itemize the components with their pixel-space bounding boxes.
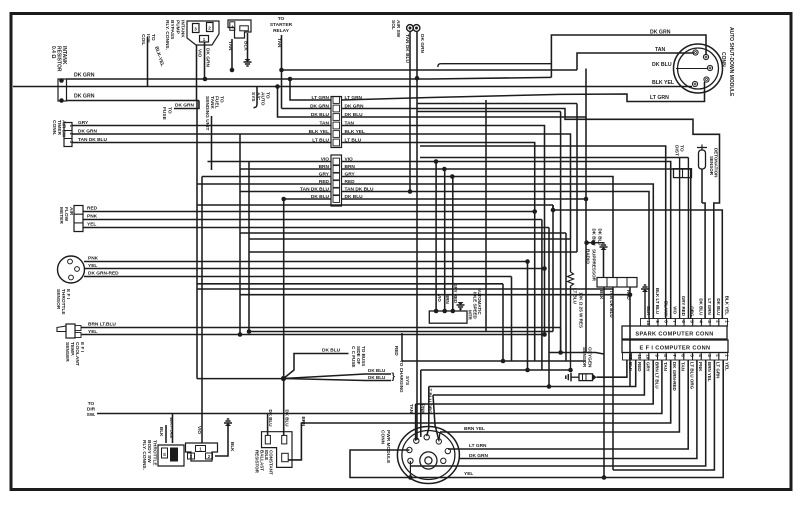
junction x527 row261 [525,259,530,264]
svg-text:10K Ω 25 W RES: 10K Ω 25 W RES [579,292,584,328]
svg-text:SOL: SOL [390,20,396,30]
svg-text:TO: TO [218,96,224,103]
svg-text:1: 1 [725,354,730,357]
junction GRY RED AIS tap [450,174,455,179]
svg-text:9: 9 [655,354,660,357]
svg-text:LT BLU ORG: LT BLU ORG [428,386,433,414]
wire YEL afm row [83,227,549,229]
wire C2 TAN DK BLU left [240,191,331,193]
svg-text:3: 3 [707,320,712,323]
wire efi pin9 row404 [416,360,654,404]
wire fuel tank sending [211,116,213,170]
wire DK BLU to charging 2 [284,379,392,381]
wire DK BLU to ballast pin1 [267,414,269,436]
wire GRY RED to AIS [452,177,454,312]
wire C1 DK GRN to spark pin 2 [342,109,720,320]
wire cell4 drop to row386 [629,287,631,387]
pwr module center ring [420,452,437,469]
svg-text:3: 3 [194,27,197,32]
wire row289 [197,288,613,290]
radio suppressor tap wire [586,242,604,244]
svg-text:IDLE: IDLE [264,450,269,460]
junction DK BLU bus [584,197,589,202]
svg-text:BLK: BLK [646,306,651,316]
wire GRY air timer [72,125,331,127]
svg-text:BRN LT.BLU: BRN LT.BLU [88,322,116,328]
svg-text:YEL: YEL [724,362,729,371]
wire DK GRN riser to module pin [551,35,706,77]
wire drop x527 [527,262,529,371]
svg-text:TO: TO [167,107,173,114]
wire x283 vertical [283,199,285,379]
svg-text:TAN DK BLU: TAN DK BLU [404,34,410,63]
svg-text:E F I COMPUTER CONN: E F I COMPUTER CONN [640,346,711,352]
svg-text:TO BUSS: TO BUSS [361,346,366,366]
wire DK BLU through module to pin S [676,68,708,70]
wire C2 BRN left [240,168,331,170]
wire to auto a/c sys [254,87,258,108]
wire x283 to ballast cell2 [283,379,285,436]
svg-text:RESISTOR: RESISTOR [255,450,260,474]
wire drop x553 [552,205,554,332]
wire drop x541 [541,220,543,371]
svg-text:RED: RED [394,346,399,356]
wire DK BLU to charging 1 [284,374,392,379]
wire DK GRN air timer [72,133,331,135]
svg-text:ORG: ORG [690,306,695,317]
wire BRN LT BLU coolant row [81,327,561,329]
svg-text:RLY. CONNS.: RLY. CONNS. [164,20,170,50]
svg-text:SIDE OF: SIDE OF [356,346,361,365]
wire to fuse [174,101,199,109]
svg-text:LT GRN: LT GRN [716,362,721,378]
connector C2 strip [331,155,342,206]
svg-text:PNK: PNK [88,256,99,262]
svg-text:STARTER: STARTER [270,22,293,28]
wire C1 LT GRN left riser [290,79,331,100]
detonation sensor [699,150,706,169]
wire TAN into pwr module [415,404,417,441]
svg-text:CONN: CONN [380,430,386,445]
air sw sol terminal 2 [413,25,420,32]
wire LT BLU ORG into pwr module [427,387,429,437]
wire long vertical x197 [196,101,198,379]
junction row210 [551,208,556,213]
junction BRN AIS tap [442,167,447,172]
svg-text:7: 7 [672,320,677,323]
svg-text:BYPASS: BYPASS [169,20,175,40]
connector constant ballast resistor [262,432,293,468]
ground oxygen sensor [566,373,571,382]
svg-text:RED: RED [637,362,642,372]
svg-text:6: 6 [681,354,686,357]
wire BLK drop throttle body [165,425,167,443]
junction pump-bypass DK GRN [203,77,208,82]
svg-text:SYS: SYS [405,376,410,385]
junction suppressor tap 1 [584,240,589,245]
wire VIO pump bypass [196,45,198,101]
wire to dir sw [97,413,268,415]
svg-text:FUSE: FUSE [161,107,167,121]
svg-text:7: 7 [672,354,677,357]
svg-text:DK GRN-RED: DK GRN-RED [672,362,677,391]
svg-text:DK GRN: DK GRN [469,453,488,459]
svg-text:SW.: SW. [87,412,96,418]
svg-text:TO: TO [150,34,156,41]
svg-text:IDLE SPEED: IDLE SPEED [473,292,478,320]
svg-text:BRN: BRN [301,417,306,427]
svg-text:DK GRN: DK GRN [419,34,425,53]
wire stub y63 to riser [438,64,551,67]
wire efi pin7 to ballast BRN [288,360,671,460]
wire YEL throttle row [84,268,545,270]
wire RED afm row [83,211,535,213]
wire row239 [249,238,571,240]
wire drop x566 [565,233,567,361]
svg-text:DK BLU: DK BLU [716,298,721,315]
wire efi pin10 row395 [433,360,644,395]
pwr module conn circle U-PWR [397,427,459,484]
wire drop x560 [560,112,562,353]
ground spark pin 10 [644,292,646,319]
svg-text:BLK YEL: BLK YEL [652,80,675,86]
svg-text:CONN: CONN [720,52,726,67]
svg-text:TAN: TAN [319,121,329,127]
svg-text:THROTTLE: THROTTLE [151,440,157,466]
wire efi pin2 row470 [613,360,714,470]
wire efi pin12 to oxygen sensor [597,360,627,377]
wire efi pin3 row466 [410,360,705,466]
wire efi pin11 row386 [429,360,636,387]
wire drop x549 [548,228,550,387]
efi coolant temp sensor [57,326,66,332]
wire DK GRN pump bypass [204,42,206,79]
wire C2 DK BLU left [284,198,331,200]
wire C1 LT GRN to module pin [342,82,705,102]
svg-text:S: S [163,452,166,457]
spark computer conn box [622,326,727,339]
efi throttle sensor circle [58,256,85,283]
svg-text:PNK: PNK [421,404,426,414]
wire drop x503 [502,284,504,361]
svg-text:5: 5 [690,354,695,357]
svg-text:1: 1 [724,320,729,323]
svg-text:WHT-TAN: WHT-TAN [169,417,174,439]
svg-text:LT GRN: LT GRN [707,298,712,314]
svg-text:8: 8 [664,320,669,323]
svg-text:0.4 Ω: 0.4 Ω [50,46,56,58]
svg-text:4: 4 [698,354,703,357]
svg-text:SENSOR: SENSOR [581,347,587,368]
junction BLK YEL riser [275,84,280,89]
junction C2 DK BLU [281,197,286,202]
svg-text:TO: TO [264,92,270,99]
junction TAN starter relay [279,68,284,73]
svg-text:RADIO: RADIO [586,249,591,264]
wire drop x534 lower [534,212,536,362]
connector throttle body A [158,445,184,466]
wire BRN YEL from pin [439,432,440,441]
wire BLK-YEL ign coil drop [147,37,149,87]
wire TAN rly conn [231,39,233,70]
svg-text:DIR: DIR [87,407,96,413]
svg-text:9: 9 [655,320,660,323]
wire C2 DK BLU to DK BLU bus [342,198,587,200]
svg-text:MTR: MTR [468,310,473,320]
wire row157 to dist bracket [420,157,688,159]
svg-text:AUTO SHUT-DOWN MODULE: AUTO SHUT-DOWN MODULE [728,27,734,97]
wire long vertical x202 (VIO throttle body) [201,177,203,444]
svg-text:2: 2 [716,354,721,357]
wire C2 RED to spark pin 9 [342,184,654,319]
wire TAN starter relay drop [281,35,283,109]
svg-text:10: 10 [646,354,651,360]
wire C2 VIO to spark pin 7 [342,162,671,320]
svg-text:SUPPRESSOR: SUPPRESSOR [591,249,596,282]
junction sol DK GRN on bus [415,76,420,81]
wire long vertical x249 [248,162,250,332]
wire DK GRN resistor bottom [67,100,200,102]
wire row294 [240,294,630,296]
svg-text:AIR: AIR [68,207,74,216]
wire detonation to spark pin 3 [702,203,705,319]
resistor 10K 25W R-10k [570,239,572,272]
wire BLK YEL bus [13,86,692,88]
wire C1 DK GRN left [282,108,332,110]
svg-text:BRN YEL: BRN YEL [707,362,712,382]
wire C2 VIO left [208,161,332,163]
wire riser row395 to pin V [433,395,439,440]
wire C1 DK BLU to module [342,69,587,118]
svg-text:YEL: YEL [464,471,473,477]
wire to-dist left through to spark pin 6 [679,158,681,320]
wire DK BLU long drop x586 [585,117,587,353]
svg-text:GRY RED: GRY RED [453,283,458,304]
svg-text:DK GRN: DK GRN [74,73,95,79]
junction x544 row268 [542,266,547,271]
auto shut-down module conn U-ASD [674,44,723,93]
connector 4-cell strip [597,278,637,288]
svg-text:PWR MODULE: PWR MODULE [385,430,391,464]
svg-text:E F I: E F I [65,289,71,300]
svg-text:AIR SW: AIR SW [395,20,401,38]
wire row331 [249,331,553,333]
svg-text:TAN: TAN [655,47,666,53]
wire to buss side of cc fuse [284,354,349,379]
svg-text:RLY. CONNS.: RLY. CONNS. [141,440,147,470]
svg-text:BALLAST: BALLAST [259,450,264,471]
wire drop x560 lower [560,328,562,353]
svg-text:RELAY: RELAY [273,28,290,34]
ground throttle body [224,419,232,423]
svg-text:TAN: TAN [681,362,686,371]
wire PNK afm row [83,219,542,221]
wire C1 LT BLU right to drop x534 [342,143,535,212]
svg-text:12: 12 [628,354,633,360]
junction x560 y352 [558,350,563,355]
wire TAN riser to module pin [577,53,694,70]
svg-text:LT BLU ORG: LT BLU ORG [689,362,694,390]
efi computer pin row [623,353,632,361]
wire row233 [240,232,566,234]
svg-text:OXYGEN: OXYGEN [586,347,592,368]
wire efi pin4 DK GRN row [459,360,697,459]
wire C2 GRY to 4-cell conn [342,177,614,278]
oxygen sensor component [579,374,593,381]
svg-text:5: 5 [690,320,695,323]
pwr module pins [414,438,419,443]
wire DK GRN bus (resistor to shutdown module) [67,77,552,79]
wire long vertical x240 [239,134,241,335]
junction conn C1 LT GRN riser [288,77,293,82]
wire row352 jog to x604 [549,353,604,355]
ground AIS [457,305,465,309]
svg-text:BLANK: BLANK [664,301,669,317]
wire C2 GRY left [202,176,331,178]
svg-text:2: 2 [208,26,211,31]
connector air sw timer [64,123,72,147]
svg-text:DK BLU: DK BLU [368,368,386,373]
svg-text:VIO: VIO [672,306,677,314]
wire DK GRN sol long drop [416,32,418,441]
wire BRN to AIS [444,169,446,311]
wire drop x577 [576,104,578,253]
wire drop x511 [511,277,513,362]
wire row111.5 [417,111,561,113]
wire efi pin8 row413 [268,360,662,414]
wire efi pin1 YEL row [413,360,723,478]
svg-text:BLK YEL: BLK YEL [725,296,730,315]
wire row370 [421,369,571,371]
svg-text:INTANK: INTANK [61,46,67,65]
ground rly conn BLK [244,62,252,66]
svg-text:BLK: BLK [628,362,633,372]
svg-text:CONSTANT: CONSTANT [269,450,274,475]
svg-text:DK GRN: DK GRN [650,30,671,36]
svg-text:BRN: BRN [445,294,450,304]
svg-text:11: 11 [637,354,642,359]
connector pump bypass rly [187,21,219,45]
svg-text:DETONATION: DETONATION [714,148,719,177]
svg-text:VIO: VIO [437,294,442,302]
wire row252 [249,251,577,253]
connector C1 strip [331,97,342,148]
wire BLK to ground throttle body [215,426,228,456]
wire row146 to spark pin 8 [420,146,666,319]
svg-text:4: 4 [698,320,703,323]
svg-text:AUTOMATIC: AUTOMATIC [477,288,482,315]
junction VIO AIS tap [434,159,439,164]
wire to-dist right to spark pin 5 [687,158,689,320]
svg-text:DK BLU: DK BLU [268,410,273,427]
wire WHT-TAN drop [172,414,174,444]
svg-text:PNK: PNK [698,362,703,372]
wire pin O to YEL row [409,461,411,478]
svg-text:PNK: PNK [87,214,98,220]
efi computer conn box [622,340,728,353]
svg-text:C C FUSE: C C FUSE [351,346,356,367]
svg-text:TAN: TAN [409,404,414,414]
connector throttle body B [186,443,218,461]
svg-text:TO: TO [679,145,685,152]
svg-text:TO: TO [88,401,95,407]
svg-text:LT BLU: LT BLU [312,138,329,144]
wire RED to charging sys riser [401,333,403,361]
svg-text:DK GRN-RED: DK GRN-RED [88,271,119,277]
svg-text:}: } [392,371,396,381]
wire C1 TAN right to drop x544 [342,126,545,269]
wire C2 RED left [197,183,331,185]
wire row103.5 [417,103,577,105]
svg-text:TAN: TAN [663,362,668,371]
wire DK GRN-RED throttle row [84,276,512,278]
wire TAN bus to module [282,69,578,71]
intank resistor R-intank [58,79,67,101]
wire cell1 to ground [603,249,605,278]
automatic idle speed motor box M-AIS [429,311,467,323]
capacitor to-dist [674,169,692,178]
svg-text:SENSOR: SENSOR [709,156,714,176]
wire cell2 drop to row470 [612,287,614,470]
svg-text:VIO: VIO [197,49,203,58]
air sw sol terminal 1 [407,25,414,32]
wire row378 from x197 [197,378,284,380]
svg-text:DK BLU: DK BLU [698,298,703,315]
svg-text:6: 6 [681,320,686,323]
svg-text:PUMP: PUMP [174,20,180,35]
svg-text:RED: RED [87,206,98,212]
svg-text:DK GRN: DK GRN [205,48,211,67]
spark computer pin row [641,319,650,327]
svg-text:LT GRN: LT GRN [469,443,487,449]
wire TAN DK BLU air timer [72,142,331,144]
svg-text:DK BLU: DK BLU [368,375,386,380]
svg-text:1: 1 [203,37,206,42]
svg-text:BRN LT BLU: BRN LT BLU [654,362,659,389]
wire efi pin5 LT GRN row [448,360,688,449]
wire YEL coolant row [81,334,545,336]
svg-text:LT GRN: LT GRN [650,95,669,101]
svg-text:DK BLU: DK BLU [652,62,672,68]
wire long vertical x486 [485,100,487,332]
svg-text:YEL: YEL [87,222,96,228]
svg-text:E F I: E F I [79,342,85,353]
svg-text:DK GRN: DK GRN [74,94,95,100]
wire row361 [402,360,586,362]
svg-text:RESISTOR: RESISTOR [56,46,62,72]
svg-text:DK BLU: DK BLU [284,410,289,427]
wire row210 to spark pin 1 [553,210,722,319]
svg-text:TO CHARGING: TO CHARGING [399,360,404,393]
wire C1 DK BLU left riser [278,87,332,118]
wire pin2 loop [350,450,413,478]
svg-text:BRN YEL: BRN YEL [464,426,485,432]
svg-text:VIO: VIO [197,426,202,434]
wire cell1 drop to YEL row [603,287,605,478]
svg-text:DK BLU: DK BLU [322,348,341,354]
wire C1 BLK YEL right to drop x570 [342,134,571,239]
wire C2 BRN to spark conn [342,169,691,319]
svg-text:BLK: BLK [230,442,235,452]
svg-text:GRY RED: GRY RED [681,296,686,317]
junction suppressor tap 2 [591,240,596,245]
svg-text:BODY SW: BODY SW [146,440,152,463]
junction DK BLU splice [281,376,286,381]
svg-text:INTANK: INTANK [180,20,186,38]
svg-text:SPARK COMPUTER CONN: SPARK COMPUTER CONN [635,332,713,338]
wire VIO to AIS [435,162,437,312]
svg-text:2: 2 [716,320,721,323]
